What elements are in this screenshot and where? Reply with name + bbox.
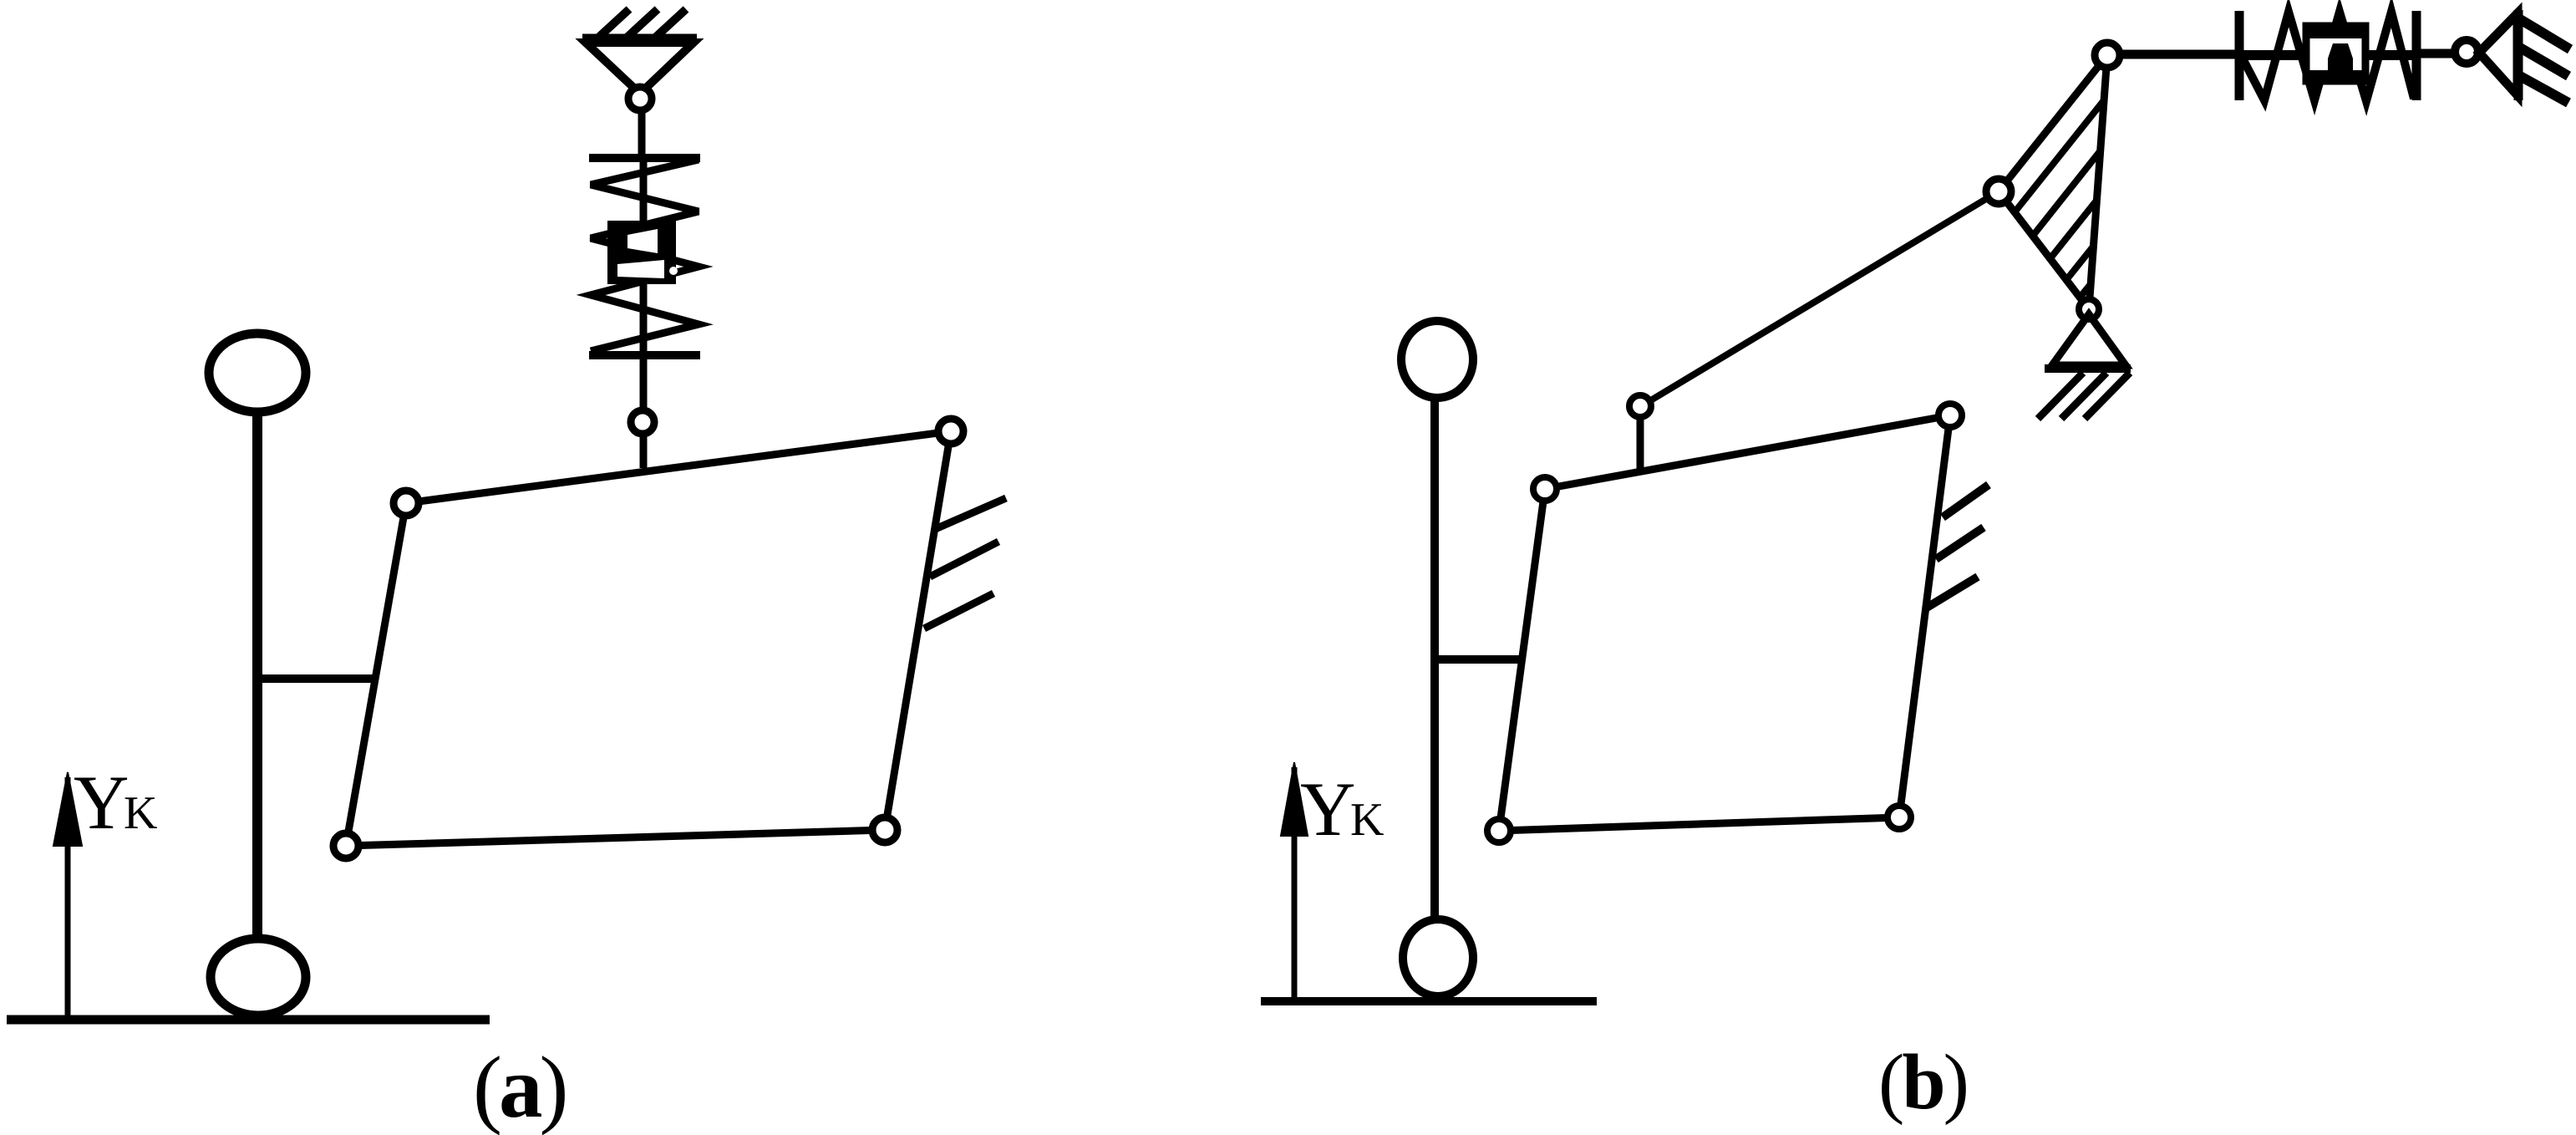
svg-text:(b): (b) bbox=[1878, 1039, 1967, 1126]
svg-text:Y: Y bbox=[1300, 766, 1355, 852]
corner joint bottom-right (b) bbox=[1888, 806, 1911, 829]
spring zigzag (a) bbox=[591, 160, 699, 351]
corner joint bottom-right (a) bbox=[872, 817, 897, 842]
wheel post (a) bbox=[252, 412, 262, 936]
pivot hatch 3 (b) bbox=[2085, 373, 2130, 419]
axis arrowhead (a) bbox=[53, 772, 82, 846]
wheel bottom circle (a) bbox=[211, 939, 306, 1015]
bell crank body (b) bbox=[1999, 55, 2107, 309]
connector arm (b) bbox=[1435, 655, 1522, 664]
corner joint top-right (b) bbox=[1938, 404, 1962, 427]
damper cylinder (a) bbox=[607, 221, 678, 284]
wheel post (b) bbox=[1430, 398, 1439, 919]
pin joint at fixed pivot (a) bbox=[628, 87, 652, 110]
svg-text:K: K bbox=[124, 787, 157, 839]
rod from pivot to spring (a) bbox=[638, 109, 646, 160]
axis shaft Y (b) bbox=[1292, 767, 1298, 998]
four-bar frame (b) bbox=[1499, 415, 1950, 831]
wall hatch stroke 2 (a) bbox=[627, 9, 658, 38]
long link to bell crank (b) bbox=[1649, 191, 1999, 401]
spring left end bar (b) bbox=[2235, 11, 2244, 100]
fixed pivot triangle (a) bbox=[586, 43, 694, 94]
fixed pivot triangle below bell crank (b) bbox=[2052, 314, 2126, 365]
corner joint top-right (a) bbox=[938, 419, 963, 444]
wheel top circle (a) bbox=[209, 333, 306, 412]
frame wall hatch 2 (b) bbox=[1936, 527, 1984, 559]
pivot hatch 2 (b) bbox=[2061, 373, 2106, 419]
frame wall hatch 1 (b) bbox=[1943, 485, 1989, 517]
wall hatch stroke 1 (a) bbox=[598, 9, 629, 38]
bell crank hatch 2 bbox=[2033, 150, 2101, 236]
wall hatch stroke 3 (a) bbox=[655, 9, 686, 38]
damper cylinder (b) bbox=[2304, 26, 2367, 81]
frame wall hatch 2 (a) bbox=[930, 542, 998, 577]
damper through-rod (b) bbox=[2241, 50, 2415, 60]
svg-text:K: K bbox=[1350, 794, 1384, 846]
spring bottom end bar (a) bbox=[589, 351, 700, 359]
wheel top circle (b) bbox=[1401, 321, 1473, 398]
spring top end bar (a) bbox=[589, 154, 700, 162]
wheel bottom circle (b) bbox=[1403, 919, 1473, 996]
rod below spring (a) bbox=[640, 355, 648, 468]
ground line (b) bbox=[1261, 997, 1597, 1005]
bell crank hatch 1 bbox=[2015, 100, 2104, 212]
bell crank bottom joint bbox=[2079, 299, 2099, 319]
frame wall hatch 1 (a) bbox=[933, 498, 1006, 530]
corner joint top-left (b) bbox=[1533, 477, 1557, 501]
rod spring to support (b) bbox=[2416, 49, 2455, 59]
pivot hatch 1 (b) bbox=[2038, 373, 2083, 419]
pushrod joint (b) bbox=[1629, 395, 1651, 417]
corner joint top-left (a) bbox=[394, 491, 419, 516]
spring right end bar (b) bbox=[2412, 11, 2421, 100]
rod bell crank to spring (b) bbox=[2116, 50, 2240, 59]
support hatch 3 (b) bbox=[2520, 76, 2568, 103]
pushrod on frame (b) bbox=[1637, 415, 1644, 471]
spring zigzag (b) bbox=[2241, 12, 2414, 101]
ground line (a) bbox=[7, 1015, 490, 1025]
fixed support wall bar (a) bbox=[582, 34, 697, 43]
four-bar frame (a) bbox=[346, 431, 951, 846]
connector arm (a) bbox=[257, 674, 374, 683]
fixed support triangle (b) bbox=[2479, 13, 2518, 95]
support base line (b) bbox=[2514, 10, 2523, 100]
frame wall hatch 3 (a) bbox=[924, 593, 993, 629]
pivot base line (b) bbox=[2045, 364, 2131, 373]
support hatch 1 (b) bbox=[2520, 19, 2570, 49]
bell crank top joint bbox=[2095, 43, 2120, 68]
corner joint bottom-left (a) bbox=[333, 833, 358, 858]
axis shaft Y (a) bbox=[65, 777, 71, 1016]
corner joint bottom-left (b) bbox=[1487, 819, 1511, 842]
support hatch 2 (b) bbox=[2520, 48, 2568, 76]
damper through-rod (a) bbox=[640, 160, 648, 354]
axis arrowhead (b) bbox=[1281, 762, 1308, 836]
frame wall hatch 3 (b) bbox=[1927, 577, 1978, 608]
svg-text:Y: Y bbox=[74, 760, 129, 845]
joint on rod (a) bbox=[631, 410, 654, 434]
bell crank hatch 3 bbox=[2050, 201, 2096, 258]
bell crank left joint bbox=[1986, 179, 2011, 204]
bell crank hatch 4 bbox=[2066, 247, 2093, 280]
support joint circle (b) bbox=[2455, 40, 2478, 64]
bell crank hatch 5 bbox=[2080, 284, 2091, 298]
svg-text:(a): (a) bbox=[473, 1038, 565, 1135]
